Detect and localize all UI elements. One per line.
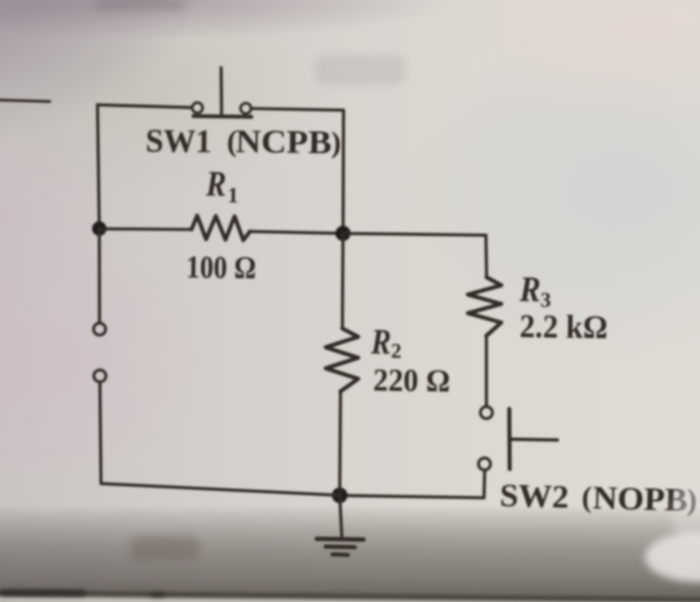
wire left rail upper: corner down to node A (98, 105, 100, 229)
terminal (open circle) lower-left (94, 370, 106, 382)
svg-text:(: ( (581, 481, 592, 514)
svg-text:220 Ω: 220 Ω (373, 362, 450, 399)
wire SW2 lower terminal down to bottom rail corner (341, 471, 485, 498)
node B junction dot (middle) (335, 226, 350, 241)
svg-text:3: 3 (540, 288, 551, 312)
faint dark smudge left-of-center above band (130, 536, 200, 560)
wire left rail: node A down to upper-left terminal (98, 229, 101, 322)
stray horizontal dash at left edge (0, 100, 50, 102)
label SW2 (NOPB) (499, 477, 697, 519)
node A junction dot (left) (92, 221, 106, 235)
svg-text:NCPB: NCPB (235, 124, 331, 161)
wire top rail left: corner to SW1 left terminal (98, 105, 192, 108)
label R1 (205, 163, 239, 207)
node C junction dot (bottom, ground node) (332, 488, 348, 504)
switch SW2 (NOPB) normally-open pushbutton (479, 407, 558, 470)
resistor R2 zigzag (326, 329, 359, 392)
svg-text:R: R (205, 163, 227, 203)
light strip along very bottom edge (0, 596, 700, 602)
wire top rail right: SW1 right terminal to top-right corner (252, 109, 344, 111)
label R3 (518, 269, 551, 312)
resistor R3 zigzag (468, 277, 501, 336)
svg-text:SW1: SW1 (145, 123, 211, 160)
svg-text:SW2: SW2 (499, 478, 569, 516)
svg-text:1: 1 (227, 182, 238, 207)
svg-text:2.2 kΩ: 2.2 kΩ (519, 309, 607, 346)
ground symbol (317, 495, 364, 555)
wire resistor R2 bottom to node C (338, 391, 342, 495)
label SW1 (NCPB) (145, 123, 341, 162)
svg-text:R: R (519, 269, 541, 309)
resistor R1 zigzag (192, 216, 251, 241)
svg-text:R: R (370, 321, 391, 361)
faint ghost smudges near top (315, 55, 405, 85)
svg-text:): ) (331, 126, 341, 159)
terminal (open circle) upper-left (94, 323, 106, 335)
blurry cut-off text fragments above dark band at bottom-left (0, 589, 86, 597)
wire resistor R1 to node B (250, 231, 343, 233)
wire right rail of upper loop down to node B (342, 110, 345, 226)
label R2 (370, 321, 402, 362)
wire node A to resistor R1 (99, 227, 191, 231)
bright reflection blob bottom-right (645, 532, 700, 582)
dark band near bottom edge (0, 590, 700, 602)
wire bottom rail left: node C to bottom-left corner and up to lower terminal (100, 383, 340, 495)
wire resistor R3 down to SW2 upper terminal (485, 336, 488, 406)
switch SW1 (NCPB) normally-closed pushbutton (192, 68, 251, 117)
svg-text:2: 2 (391, 339, 402, 363)
svg-text:100 Ω: 100 Ω (186, 249, 256, 286)
wire node B right and down to resistor R3 (343, 233, 487, 277)
wire resistor R2 top: node B down to zigzag (341, 233, 345, 328)
